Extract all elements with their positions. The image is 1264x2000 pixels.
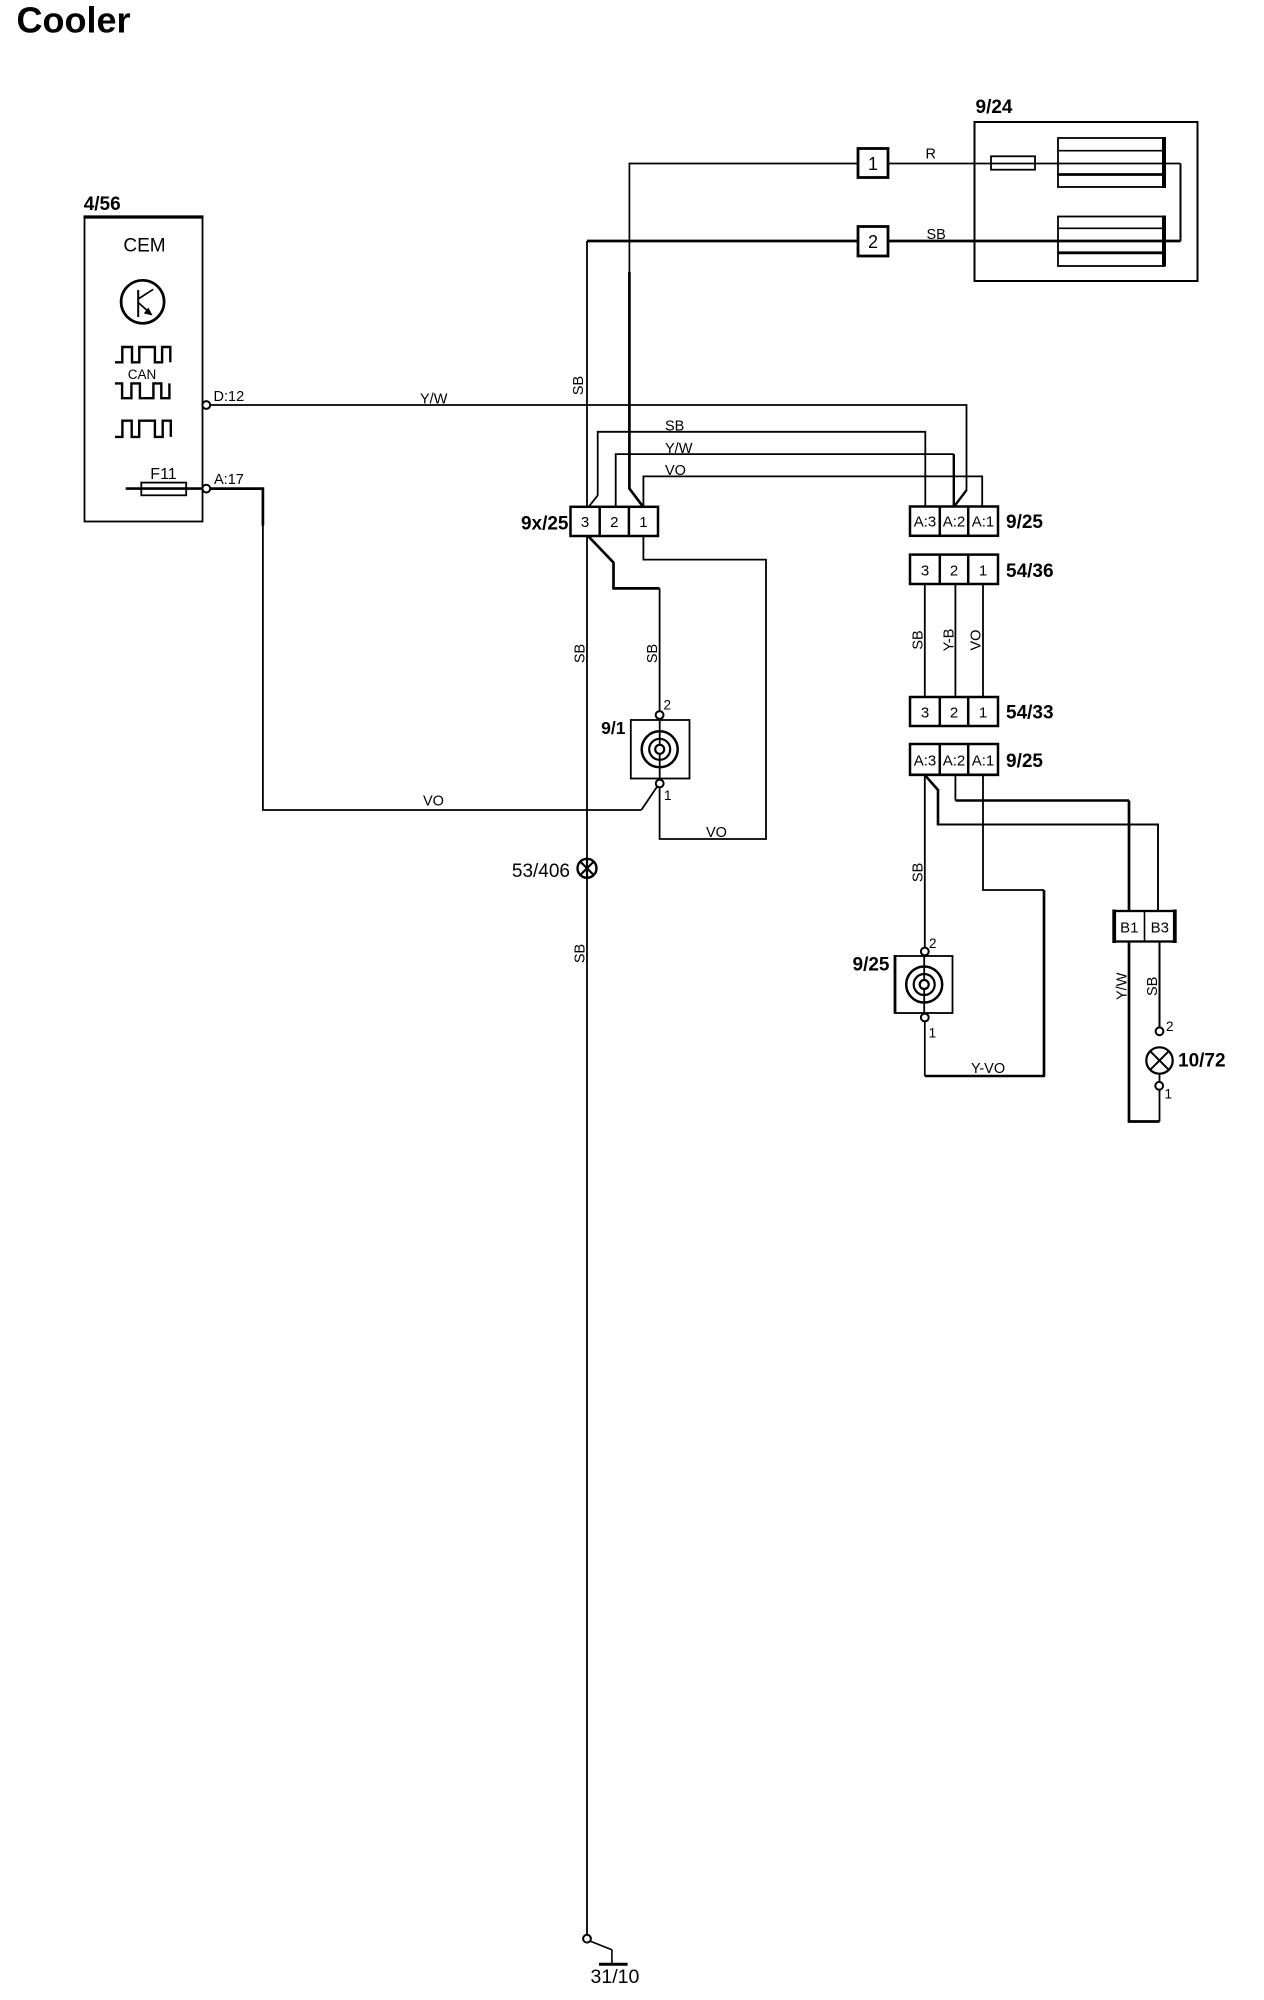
svg-text:SB: SB: [665, 419, 684, 435]
svg-text:1: 1: [868, 154, 878, 174]
svg-text:2: 2: [610, 514, 618, 531]
svg-text:2: 2: [950, 705, 958, 722]
svg-text:1: 1: [1165, 1087, 1173, 1102]
svg-text:1: 1: [664, 788, 672, 803]
svg-text:Y/W: Y/W: [665, 441, 693, 457]
svg-text:SB: SB: [910, 863, 926, 882]
svg-text:SB: SB: [927, 227, 946, 243]
svg-text:1: 1: [929, 1026, 937, 1041]
svg-text:10/72: 10/72: [1178, 1051, 1226, 1072]
svg-text:1: 1: [979, 705, 987, 722]
svg-text:VO: VO: [969, 630, 985, 651]
svg-text:VO: VO: [423, 794, 444, 810]
svg-text:R: R: [926, 146, 936, 162]
svg-text:Y-VO: Y-VO: [971, 1061, 1005, 1077]
svg-text:3: 3: [581, 514, 589, 531]
svg-text:54/33: 54/33: [1006, 703, 1054, 724]
svg-text:A:3: A:3: [914, 514, 937, 531]
svg-text:2: 2: [868, 232, 878, 252]
svg-text:CAN: CAN: [128, 367, 157, 382]
svg-text:SB: SB: [910, 630, 926, 649]
svg-text:F11: F11: [150, 466, 176, 483]
svg-text:2: 2: [950, 563, 958, 580]
svg-text:SB: SB: [645, 644, 661, 663]
svg-text:SB: SB: [571, 376, 587, 395]
svg-text:A:2: A:2: [943, 514, 966, 531]
svg-text:3: 3: [921, 705, 929, 722]
svg-text:31/10: 31/10: [591, 1966, 640, 1988]
svg-text:54/36: 54/36: [1006, 561, 1054, 582]
svg-text:A:1: A:1: [972, 514, 995, 531]
svg-text:Cooler: Cooler: [17, 0, 131, 40]
svg-text:A:1: A:1: [972, 753, 995, 770]
svg-text:VO: VO: [706, 825, 727, 841]
svg-text:CEM: CEM: [123, 236, 165, 257]
svg-text:SB: SB: [573, 944, 589, 963]
svg-text:2: 2: [1166, 1019, 1174, 1034]
svg-text:SB: SB: [1145, 977, 1161, 996]
svg-text:Y/W: Y/W: [1115, 972, 1131, 1000]
svg-text:A:3: A:3: [914, 753, 937, 770]
svg-text:Y-B: Y-B: [941, 629, 957, 652]
svg-text:3: 3: [921, 563, 929, 580]
svg-text:B1: B1: [1120, 920, 1138, 937]
svg-text:A:2: A:2: [943, 753, 966, 770]
svg-text:2: 2: [664, 698, 672, 713]
svg-text:VO: VO: [665, 463, 686, 479]
svg-text:2: 2: [929, 936, 937, 951]
svg-text:Y/W: Y/W: [420, 391, 448, 407]
svg-text:D:12: D:12: [214, 389, 245, 405]
svg-text:4/56: 4/56: [84, 194, 121, 215]
svg-text:53/406: 53/406: [512, 861, 570, 882]
svg-text:9x/25: 9x/25: [521, 514, 569, 535]
svg-text:A:17: A:17: [214, 472, 244, 488]
svg-text:1: 1: [639, 514, 647, 531]
svg-text:9/25: 9/25: [1006, 751, 1043, 772]
svg-text:9/25: 9/25: [853, 955, 890, 976]
svg-text:9/24: 9/24: [976, 97, 1013, 118]
svg-text:9/25: 9/25: [1006, 512, 1043, 533]
svg-text:9/1: 9/1: [601, 718, 626, 738]
svg-text:B3: B3: [1151, 920, 1169, 937]
svg-text:1: 1: [979, 563, 987, 580]
svg-text:SB: SB: [573, 644, 589, 663]
